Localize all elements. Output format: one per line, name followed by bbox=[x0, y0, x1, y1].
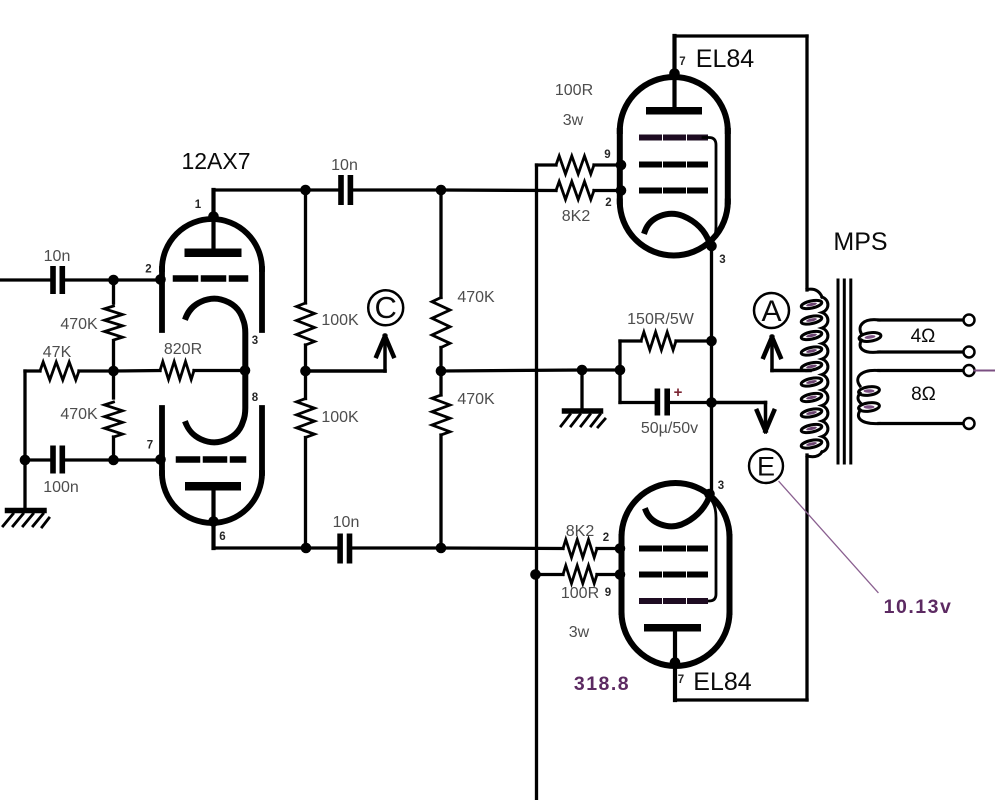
grid g3 dashed top EL84 bbox=[642, 135, 705, 141]
svg-text:7: 7 bbox=[147, 440, 153, 452]
transformer secondary 8ohm winding bbox=[858, 370, 880, 423]
svg-text:EL84: EL84 bbox=[696, 45, 754, 73]
svg-text:C: C bbox=[375, 290, 397, 325]
svg-text:470K: 470K bbox=[60, 316, 98, 333]
node B+ lower 100R junction bbox=[530, 569, 541, 580]
node plate1 rail junction bbox=[300, 185, 311, 196]
terminal 8ohm top bbox=[964, 365, 975, 376]
wire plate lead top EL84 bbox=[672, 36, 676, 107]
svg-text:8K2: 8K2 bbox=[566, 523, 595, 540]
transformer core bbox=[838, 280, 851, 463]
svg-text:100R: 100R bbox=[555, 82, 593, 99]
resistor 820R cathode bias bbox=[160, 362, 194, 380]
wire input from left edge bbox=[0, 278, 51, 281]
wire top rail plate1 to 100K bbox=[214, 188, 306, 191]
svg-text:100R: 100R bbox=[561, 585, 599, 602]
resistor 47K feedback bbox=[25, 369, 40, 372]
node E circle bbox=[749, 449, 783, 483]
svg-text:8Ω: 8Ω bbox=[911, 384, 936, 405]
annotation pointer line bbox=[779, 482, 878, 593]
node 100K junction bbox=[300, 366, 311, 377]
node pin7 feedback junction bbox=[108, 455, 119, 466]
svg-text:470K: 470K bbox=[60, 406, 98, 423]
node upper 470K junction bbox=[436, 185, 447, 196]
svg-text:10n: 10n bbox=[331, 157, 358, 174]
node pin2 on envelope bbox=[155, 274, 166, 285]
node pin7 on envelope bbox=[155, 454, 166, 465]
resistor 100K upper bbox=[304, 190, 307, 303]
wire g3 to cathode bottom bbox=[703, 499, 716, 601]
svg-text:7: 7 bbox=[678, 674, 684, 686]
svg-text:7: 7 bbox=[679, 56, 685, 68]
cathode top EL84 bbox=[645, 214, 710, 243]
wire pin6 row bbox=[214, 546, 307, 549]
node A circle bbox=[754, 293, 789, 328]
svg-text:10n: 10n bbox=[333, 514, 360, 531]
svg-text:3w: 3w bbox=[569, 624, 590, 641]
svg-text:100n: 100n bbox=[43, 479, 79, 496]
cathode bottom EL84 bbox=[646, 498, 709, 527]
capacitor 100n bbox=[25, 458, 50, 461]
wire 8ohm bottom lead bbox=[879, 422, 964, 425]
wire purple stub right edge bbox=[975, 370, 995, 372]
resistor 470K upper-left grid leak bbox=[112, 280, 115, 303]
svg-text:12AX7: 12AX7 bbox=[181, 148, 250, 174]
wire g3 to cathode bbox=[703, 138, 716, 245]
svg-text:3: 3 bbox=[718, 480, 724, 492]
node lower 470K junction bbox=[436, 543, 447, 554]
resistor 100R screen lower bbox=[536, 573, 564, 576]
node E arrow bbox=[712, 401, 766, 405]
grid g1 dashed top EL84 bbox=[642, 188, 705, 194]
wire 4ohm top lead bbox=[879, 318, 964, 321]
svg-text:50µ/50v: 50µ/50v bbox=[641, 420, 698, 437]
node 470K pair junction bbox=[439, 371, 442, 395]
node bracket mid junction bbox=[615, 365, 626, 376]
resistor 100K lower bbox=[304, 371, 307, 399]
svg-text:2: 2 bbox=[145, 264, 151, 276]
transformer primary winding bbox=[800, 289, 827, 457]
svg-text:8: 8 bbox=[252, 392, 259, 404]
capacitor 50u/50v bypass bbox=[620, 401, 655, 404]
capacitor 10n lower coupling bbox=[306, 546, 338, 549]
wire plate lead bottom EL84 bbox=[673, 631, 677, 700]
wire top rail to transformer bbox=[675, 34, 808, 37]
grid triode1 dashed bbox=[176, 275, 245, 282]
capacitor 10n input coupling bbox=[50, 266, 65, 294]
wire cap to 12AX7 grid pin2 bbox=[65, 278, 161, 281]
grid g3 dashed bottom EL84 bbox=[642, 598, 705, 604]
svg-text:E: E bbox=[757, 452, 775, 482]
wire 4ohm bottom lead bbox=[879, 350, 964, 353]
terminal 8ohm bottom bbox=[964, 418, 975, 429]
wire B+ screen feed vertical bbox=[535, 165, 538, 800]
svg-text:3: 3 bbox=[252, 335, 258, 347]
node A arrow bbox=[772, 369, 810, 373]
grid g2 dashed bottom EL84 bbox=[642, 572, 705, 578]
svg-text:47K: 47K bbox=[43, 344, 72, 361]
svg-text:3w: 3w bbox=[563, 112, 584, 129]
node 100n/ground corner bbox=[20, 455, 31, 466]
wire 8ohm top lead bbox=[879, 369, 964, 372]
node grid1 junction bbox=[108, 275, 119, 286]
svg-text:MPS: MPS bbox=[833, 228, 887, 256]
node C arrow bbox=[306, 369, 386, 373]
svg-text:820R: 820R bbox=[164, 341, 202, 358]
node pin9 bottom EL84 bbox=[615, 569, 626, 580]
node cathode junction bbox=[240, 365, 251, 376]
resistor 470K upper grid leak EL84 bbox=[439, 190, 442, 298]
resistor 8K2 grid stopper lower bbox=[441, 546, 563, 550]
ground left bbox=[3, 460, 49, 527]
plate triode2 bbox=[185, 482, 241, 491]
grid g1 dashed bottom EL84 bbox=[642, 546, 705, 552]
wire plate1 lead bbox=[211, 190, 215, 249]
wire plate2 lead to pin6 bbox=[211, 490, 215, 548]
tube 12AX7 envelope bbox=[162, 219, 262, 523]
plate triode1 bbox=[185, 249, 242, 258]
resistor 8K2 grid stopper upper bbox=[441, 188, 556, 192]
node pin6 rail junction bbox=[301, 543, 312, 554]
terminal 4ohm bottom bbox=[964, 347, 975, 358]
plate bottom EL84 bbox=[644, 624, 701, 632]
svg-text:+: + bbox=[674, 384, 683, 401]
svg-text:4Ω: 4Ω bbox=[911, 326, 936, 347]
svg-text:6: 6 bbox=[219, 531, 225, 543]
node 47K/470K/820R junction bbox=[108, 366, 119, 377]
node ground junction bbox=[577, 365, 588, 376]
svg-text:9: 9 bbox=[605, 587, 611, 599]
node pin7 top EL84 bbox=[669, 68, 680, 79]
svg-text:318.8: 318.8 bbox=[574, 673, 630, 695]
node pin2 top EL84 bbox=[616, 185, 627, 196]
svg-text:3: 3 bbox=[719, 254, 725, 266]
svg-text:A: A bbox=[761, 295, 781, 328]
capacitor 10n upper coupling bbox=[306, 188, 339, 191]
svg-text:1: 1 bbox=[195, 199, 202, 211]
wire cathode column bbox=[710, 246, 713, 494]
grid g2 dashed top EL84 bbox=[642, 162, 705, 168]
node pin3 bottom EL84 bbox=[704, 489, 715, 500]
svg-text:10n: 10n bbox=[44, 248, 71, 265]
ground middle bbox=[561, 370, 605, 427]
node pin2 bottom EL84 bbox=[615, 543, 626, 554]
svg-text:100K: 100K bbox=[321, 312, 359, 329]
wire bottom to transformer bbox=[675, 698, 807, 701]
resistor 150R/5W cathode bias bbox=[618, 341, 621, 403]
wire 47K down leg bbox=[23, 371, 26, 460]
node pin3 top EL84 bbox=[706, 241, 717, 252]
svg-text:2: 2 bbox=[605, 197, 611, 209]
node C circle bbox=[368, 290, 403, 325]
node cathode/50u junction bbox=[706, 397, 717, 408]
svg-text:9: 9 bbox=[604, 149, 610, 161]
tube EL84 top envelope bbox=[620, 77, 728, 256]
transformer secondary 4ohm winding bbox=[859, 320, 882, 353]
wire ground row bbox=[441, 370, 582, 371]
cathode triode1 bbox=[186, 299, 245, 371]
tube EL84 bottom envelope bbox=[622, 483, 730, 666]
resistor 100R screen upper bbox=[556, 156, 594, 174]
plate top EL84 bbox=[646, 107, 702, 115]
svg-text:8K2: 8K2 bbox=[562, 208, 591, 225]
terminal 4ohm top bbox=[964, 315, 975, 326]
svg-text:10.13v: 10.13v bbox=[884, 596, 953, 618]
cathode triode2 bbox=[186, 370, 245, 442]
resistor 470K lower-left bbox=[112, 371, 115, 398]
svg-text:EL84: EL84 bbox=[693, 668, 751, 696]
node pin9 top EL84 bbox=[616, 160, 627, 171]
node cathode/150R junction bbox=[706, 336, 717, 347]
svg-text:470K: 470K bbox=[457, 391, 495, 408]
grid triode2 dashed bbox=[179, 456, 243, 463]
svg-text:150R/5W: 150R/5W bbox=[627, 311, 695, 328]
svg-text:470K: 470K bbox=[457, 289, 495, 306]
node pin7 bottom EL84 bbox=[670, 657, 681, 668]
svg-text:2: 2 bbox=[603, 532, 609, 544]
svg-text:100K: 100K bbox=[321, 409, 359, 426]
